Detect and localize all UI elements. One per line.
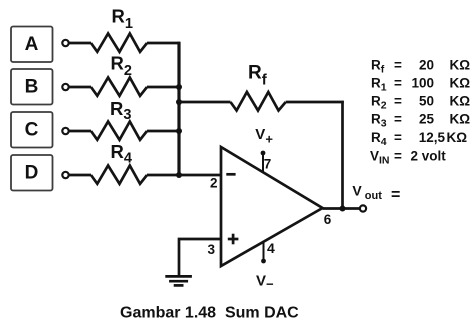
wire R3 to summing bus — [147, 130, 180, 133]
input box B — [11, 69, 53, 105]
terminal node D — [62, 172, 68, 178]
op-amp non-inverting input marker — [228, 234, 239, 245]
pin 7 stub (V+) — [261, 151, 266, 172]
junction dot R3/bus — [176, 128, 182, 134]
ground wire from pin 3 — [179, 239, 221, 276]
wire R4 to summing bus — [147, 174, 180, 177]
wire R1 to summing bus — [147, 42, 180, 45]
svg-text:4: 4 — [267, 240, 275, 256]
terminal node A — [62, 40, 68, 46]
terminal node B — [62, 84, 68, 90]
junction dot feedback/output — [340, 206, 346, 212]
svg-text:D: D — [25, 162, 39, 183]
ground — [165, 276, 192, 285]
svg-text:3: 3 — [208, 242, 216, 257]
junction dot Rf branch — [176, 99, 182, 105]
pin 4 stub (V-) — [261, 243, 266, 264]
wire B to R2 — [69, 86, 91, 89]
wire A to R1 — [69, 42, 91, 45]
op-amp inverting input marker — [226, 173, 235, 176]
wire C to R3 — [69, 130, 91, 133]
summing bus wire — [177, 42, 180, 175]
svg-text:7: 7 — [264, 157, 272, 172]
svg-text:C: C — [25, 119, 39, 140]
svg-text:B: B — [25, 76, 39, 97]
svg-text:A: A — [25, 34, 39, 55]
resistor R3 — [91, 122, 147, 140]
wire R2 to summing bus — [147, 86, 180, 89]
terminal node C — [62, 128, 68, 134]
input box A — [11, 27, 53, 63]
svg-text:Gambar 1.48 Sum DAC: Gambar 1.48 Sum DAC — [120, 304, 299, 321]
wire op-amp output — [323, 207, 360, 210]
input box C — [11, 112, 53, 148]
svg-text:6: 6 — [324, 212, 332, 227]
feedback wire down to output node — [341, 101, 344, 209]
wire D to R4 — [69, 174, 91, 177]
input box D — [11, 155, 53, 191]
svg-text:2: 2 — [210, 176, 218, 191]
junction dot R2/bus — [176, 84, 182, 90]
op-amp U1 — [221, 147, 323, 266]
terminal Vout — [360, 205, 366, 211]
wire bus to op-amp inverting input — [179, 174, 221, 177]
junction dot R4/bus — [176, 172, 182, 178]
resistor R2 — [91, 78, 147, 96]
resistor R1 — [91, 34, 147, 52]
wire Rf to feedback corner — [286, 101, 344, 104]
resistor R4 — [91, 166, 147, 184]
resistor Rf — [231, 92, 286, 111]
wire bus to Rf — [179, 101, 231, 104]
